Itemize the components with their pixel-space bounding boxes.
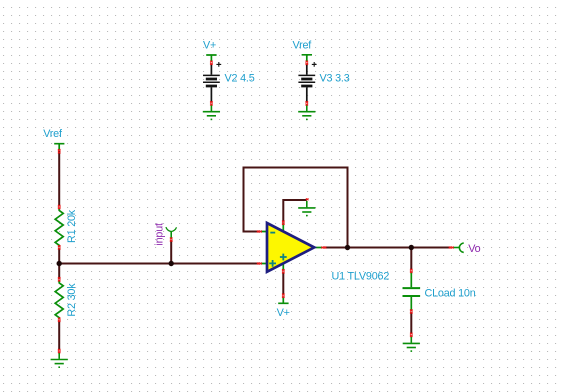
wire node C to CLoad xyxy=(410,248,412,270)
wire node A to R2 xyxy=(58,264,60,280)
svg-text:V3 3.3: V3 3.3 xyxy=(320,72,350,84)
op-amp U1 input leads xyxy=(261,232,267,264)
wire op-amp output to Vo xyxy=(325,247,451,249)
pin marks R2 top xyxy=(58,277,61,281)
wire op-amp V+ pin to V+ port xyxy=(282,272,284,295)
port Vref left xyxy=(54,144,64,150)
pin marks Vo port xyxy=(449,247,454,249)
resistor R1 20k xyxy=(55,208,63,246)
ground under V2 xyxy=(203,105,220,121)
svg-text:Vref: Vref xyxy=(43,128,63,140)
op-amp U1 power pin leads xyxy=(282,223,284,270)
power source V3 3.3 (battery) xyxy=(298,62,316,102)
junction node D (output/CLoad) xyxy=(409,245,414,250)
svg-text:V2 4.5: V2 4.5 xyxy=(225,72,255,84)
svg-text:Vo: Vo xyxy=(468,243,480,255)
pin marks R2 ground xyxy=(58,349,61,353)
op-amp U1 triangle body xyxy=(267,223,314,272)
svg-text:V+: V+ xyxy=(277,307,290,319)
pin marks op-amp +IN xyxy=(257,263,262,265)
svg-text:R2 30k: R2 30k xyxy=(66,283,78,317)
port V+ bottom xyxy=(278,297,288,303)
pin marks V2 top xyxy=(210,61,213,65)
op-amp U1 plus power sign xyxy=(280,254,287,261)
pin marks Vref port xyxy=(58,149,61,153)
pin marks R1 bottom xyxy=(58,245,61,249)
wire R1 to node A xyxy=(58,248,60,264)
ground under CLoad xyxy=(403,336,420,352)
svg-text:V+: V+ xyxy=(203,39,216,51)
ground at op-amp V- xyxy=(298,201,315,217)
wire R2 to ground xyxy=(58,321,60,351)
pin marks CLoad bottom xyxy=(410,309,413,313)
pin marks op-amp V- xyxy=(282,221,285,225)
op-amp U1 output lead xyxy=(315,247,322,249)
svg-text:CLoad 10n: CLoad 10n xyxy=(425,288,476,300)
wire feedback loop output to -IN xyxy=(244,168,348,248)
pin marks ground at V- wire xyxy=(306,198,309,200)
pin marks op-amp -IN xyxy=(257,231,262,233)
wire input port down to node B xyxy=(170,240,172,264)
junction node A (R1/R2) xyxy=(57,261,62,266)
wire node A to op-amp +IN xyxy=(58,263,259,265)
port Vo output xyxy=(453,243,464,253)
junction node B (input/feed wire) xyxy=(169,261,174,266)
resistor R2 30k xyxy=(55,281,63,319)
op-amp U1 minus input sign xyxy=(270,232,275,234)
pin marks input port xyxy=(170,238,173,242)
power source V2 4.5 (battery) xyxy=(203,62,221,102)
capacitor CLoad 10n xyxy=(403,272,421,310)
wire Vref port to R1 xyxy=(58,151,60,207)
wire CLoad to ground xyxy=(410,313,412,335)
port Vref top xyxy=(302,55,312,62)
ground under V3 xyxy=(298,105,315,121)
port V+ top xyxy=(206,55,216,62)
pin marks V+ port bottom xyxy=(282,294,285,298)
op-amp U1 plus input sign xyxy=(269,260,276,267)
pin marks CLoad top xyxy=(410,269,413,273)
ground under R2 xyxy=(51,353,68,369)
svg-text:input: input xyxy=(154,223,166,246)
port input xyxy=(166,227,177,238)
pin marks op-amp output xyxy=(321,247,326,249)
pin marks V2 bottom xyxy=(210,101,213,105)
pin marks V3 top xyxy=(306,61,309,65)
junction node C (output/feedback) xyxy=(345,245,350,250)
pin marks op-amp V+ xyxy=(282,269,285,273)
pin marks R2 bottom xyxy=(58,318,61,322)
wire op-amp V- pin to ground xyxy=(283,200,307,223)
svg-text:U1 TLV9062: U1 TLV9062 xyxy=(332,270,390,282)
svg-text:Vref: Vref xyxy=(293,39,313,51)
svg-text:R1 20k: R1 20k xyxy=(66,209,78,243)
pin marks CLoad ground xyxy=(410,333,413,337)
pin marks R1 top xyxy=(58,205,61,209)
pin marks V3 bottom xyxy=(306,101,309,105)
